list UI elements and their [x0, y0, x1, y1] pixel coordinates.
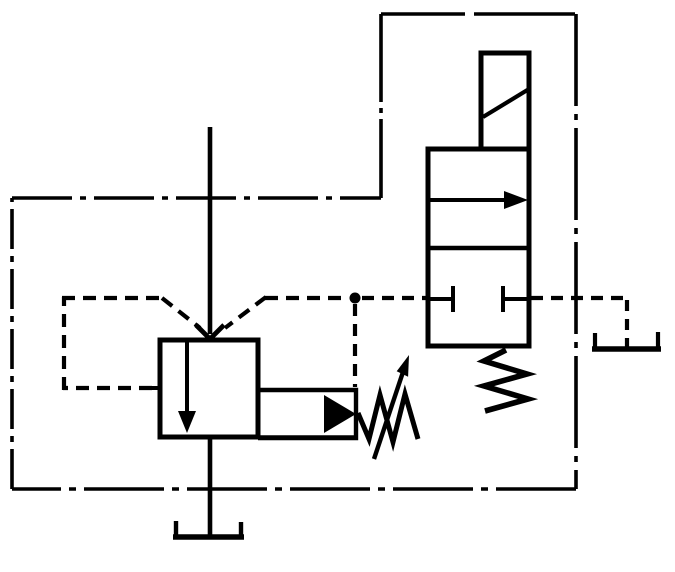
wire: reducing valve outlet to tank: [208, 438, 213, 537]
junction node dot: [350, 293, 361, 304]
adjustable spring zigzag: [358, 394, 418, 442]
adjustment arrow through spring: [374, 355, 409, 459]
wire: supply line into reducing valve: [208, 127, 213, 334]
pilot piston solid triangle: [324, 395, 356, 433]
enclosure boundary bottom edge: [12, 487, 576, 491]
pilot port tick on reducing valve left side: [147, 386, 159, 390]
arrowhead at reducing valve inlet: [196, 325, 224, 339]
solenoid actuator box U1: [481, 53, 529, 149]
flow path arrow inside reducing valve: [178, 341, 196, 433]
tank symbol T1: [173, 521, 244, 537]
pilot line dashed: loop left vertical: [62, 297, 66, 390]
pressure reducing valve R1 body square: [160, 340, 258, 437]
solenoid valve V1 body: [428, 149, 529, 346]
bottom edge extension under spring chamber: [258, 435, 356, 439]
pilot line dashed: horizontal to junction: [265, 296, 348, 300]
solenoid diagonal stroke: [483, 89, 529, 117]
tank symbol T2 (drain): [592, 332, 661, 349]
blocked port T right in lower position: [503, 286, 529, 312]
pilot line dashed: loop top horizontal: [62, 296, 162, 300]
enclosure boundary right edge: [574, 14, 578, 489]
pilot line dashed: left diagonal to inlet arrow: [162, 298, 200, 328]
solenoid valve position divider: [428, 246, 529, 250]
return spring under solenoid valve: [484, 350, 528, 411]
pilot line dashed: valve left port to loop: [63, 386, 152, 390]
pilot line dashed: junction down to spring chamber: [353, 304, 357, 387]
enclosure boundary middle horizontal edge: [12, 196, 381, 200]
enclosure boundary top edge: [381, 12, 575, 16]
flow arrow in upper position: [429, 191, 528, 209]
reducing valve spring chamber rectangle: [258, 390, 356, 438]
pilot line dashed: drain drop to tank: [625, 300, 629, 347]
blocked port T left in lower position: [428, 286, 453, 312]
pilot line dashed: solenoid valve right port to drain: [531, 296, 627, 300]
pilot line dashed: right diagonal to inlet arrow: [225, 297, 266, 328]
enclosure boundary notch vertical edge: [379, 14, 383, 198]
enclosure boundary left edge: [10, 198, 14, 489]
pilot line dashed: junction to solenoid valve: [362, 296, 427, 300]
